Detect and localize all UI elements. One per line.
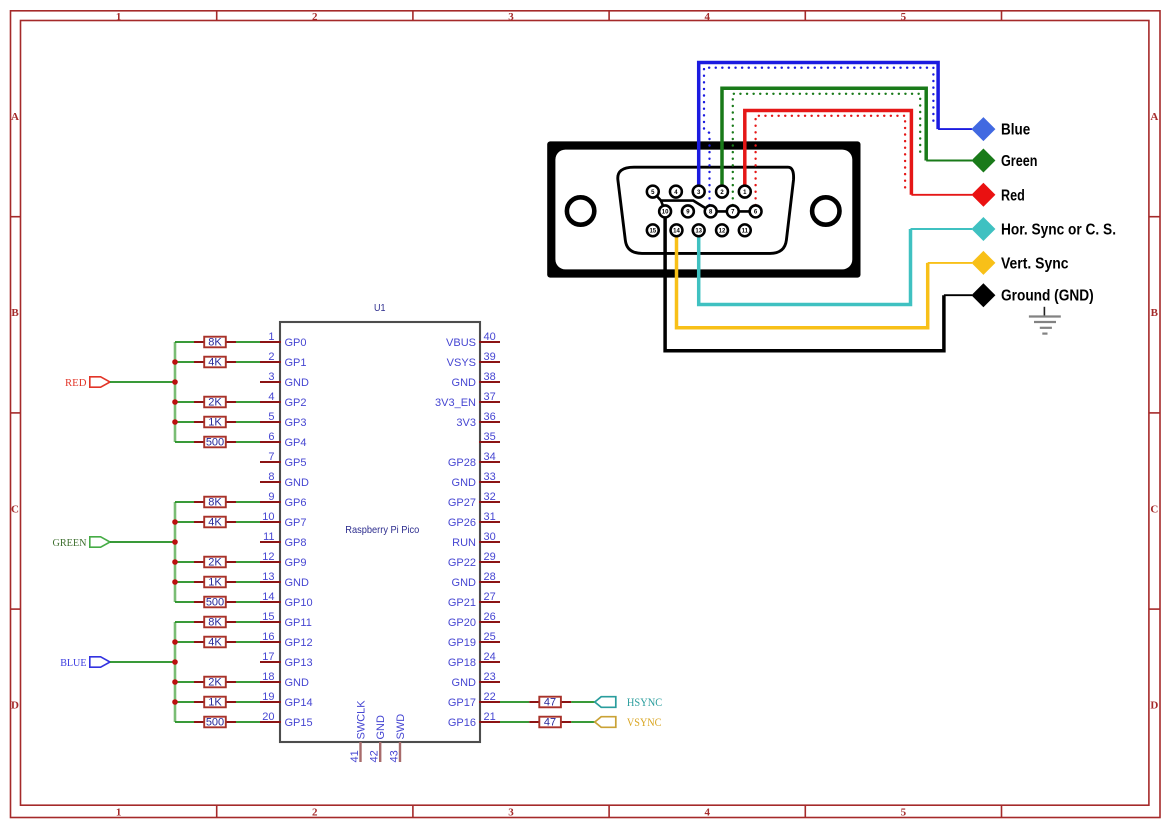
svg-text:26: 26 [484, 611, 496, 623]
svg-text:GP14: GP14 [285, 697, 313, 709]
svg-text:Vert. Sync: Vert. Sync [1001, 255, 1069, 272]
svg-text:D: D [11, 700, 19, 712]
svg-text:GP11: GP11 [285, 617, 312, 629]
svg-text:13: 13 [695, 229, 702, 235]
svg-text:1: 1 [116, 806, 122, 818]
svg-text:500: 500 [206, 597, 224, 609]
svg-text:4K: 4K [208, 517, 222, 529]
svg-text:2K: 2K [208, 677, 222, 689]
svg-text:1K: 1K [208, 697, 222, 709]
svg-text:17: 17 [262, 651, 274, 663]
svg-text:GP16: GP16 [448, 717, 476, 729]
svg-text:15: 15 [262, 611, 274, 623]
svg-text:RED: RED [65, 377, 87, 389]
svg-text:Raspberry Pi Pico: Raspberry Pi Pico [345, 524, 419, 536]
svg-text:B: B [11, 307, 19, 319]
svg-text:23: 23 [484, 671, 496, 683]
svg-text:10: 10 [662, 210, 669, 216]
svg-text:GP22: GP22 [448, 557, 476, 569]
svg-text:GP2: GP2 [285, 397, 307, 409]
svg-text:GP9: GP9 [285, 557, 307, 569]
svg-text:GND: GND [285, 377, 310, 389]
svg-text:25: 25 [484, 631, 496, 643]
svg-text:18: 18 [262, 671, 274, 683]
svg-text:GP13: GP13 [285, 657, 313, 669]
svg-text:47: 47 [544, 717, 556, 729]
svg-text:GP21: GP21 [448, 597, 476, 609]
svg-text:28: 28 [484, 571, 496, 583]
svg-text:C: C [11, 503, 19, 515]
svg-text:GP15: GP15 [285, 717, 313, 729]
svg-text:21: 21 [484, 711, 496, 723]
svg-text:5: 5 [901, 11, 907, 23]
svg-text:13: 13 [262, 571, 274, 583]
svg-text:6: 6 [268, 431, 274, 443]
svg-text:500: 500 [206, 717, 224, 729]
svg-text:VBUS: VBUS [446, 337, 476, 349]
svg-text:42: 42 [369, 750, 381, 762]
svg-text:GND: GND [452, 377, 477, 389]
svg-text:8K: 8K [208, 617, 222, 629]
svg-text:20: 20 [262, 711, 274, 723]
svg-text:Ground (GND): Ground (GND) [1001, 288, 1094, 305]
svg-text:41: 41 [349, 750, 361, 762]
svg-text:B: B [1151, 307, 1159, 319]
svg-text:11: 11 [742, 229, 749, 235]
svg-text:1: 1 [116, 11, 122, 23]
svg-text:3V3: 3V3 [456, 417, 476, 429]
svg-text:1K: 1K [208, 417, 222, 429]
svg-text:2: 2 [312, 806, 318, 818]
svg-text:RUN: RUN [452, 537, 476, 549]
svg-text:GP12: GP12 [285, 637, 313, 649]
svg-text:GND: GND [285, 677, 310, 689]
svg-text:GP17: GP17 [448, 697, 476, 709]
svg-text:36: 36 [484, 411, 496, 423]
svg-text:7: 7 [268, 451, 274, 463]
svg-text:GP6: GP6 [285, 497, 307, 509]
svg-text:12: 12 [719, 229, 726, 235]
svg-text:3V3_EN: 3V3_EN [435, 397, 476, 409]
svg-text:3: 3 [268, 371, 274, 383]
svg-text:BLUE: BLUE [60, 657, 87, 669]
svg-text:GP10: GP10 [285, 597, 313, 609]
svg-text:GP8: GP8 [285, 537, 307, 549]
svg-text:GP26: GP26 [448, 517, 476, 529]
svg-text:GP4: GP4 [285, 437, 307, 449]
svg-text:GND: GND [285, 477, 310, 489]
svg-text:Green: Green [1001, 153, 1037, 170]
svg-text:A: A [1150, 111, 1158, 123]
svg-text:34: 34 [484, 451, 496, 463]
svg-text:8K: 8K [208, 497, 222, 509]
svg-text:Red: Red [1001, 187, 1025, 204]
svg-text:15: 15 [649, 229, 656, 235]
svg-text:4: 4 [704, 806, 710, 818]
svg-text:GND: GND [452, 677, 477, 689]
svg-text:8K: 8K [208, 337, 222, 349]
svg-text:GP5: GP5 [285, 457, 307, 469]
svg-text:5: 5 [901, 806, 907, 818]
svg-text:2: 2 [312, 11, 318, 23]
svg-text:2K: 2K [208, 557, 222, 569]
svg-text:3: 3 [508, 11, 514, 23]
svg-text:24: 24 [484, 651, 496, 663]
svg-text:GP27: GP27 [448, 497, 476, 509]
svg-text:8: 8 [268, 471, 274, 483]
svg-text:GND: GND [452, 477, 477, 489]
svg-text:GND: GND [452, 577, 477, 589]
svg-text:12: 12 [262, 551, 274, 563]
svg-text:39: 39 [484, 351, 496, 363]
svg-text:1: 1 [268, 331, 274, 343]
svg-text:22: 22 [484, 691, 496, 703]
svg-text:GP28: GP28 [448, 457, 476, 469]
svg-text:VSYNC: VSYNC [627, 717, 662, 729]
svg-text:GP19: GP19 [448, 637, 476, 649]
svg-text:GP1: GP1 [285, 357, 307, 369]
svg-text:Blue: Blue [1001, 122, 1031, 139]
svg-text:9: 9 [268, 491, 274, 503]
svg-text:19: 19 [262, 691, 274, 703]
svg-text:35: 35 [484, 431, 496, 443]
svg-text:30: 30 [484, 531, 496, 543]
svg-text:4: 4 [268, 391, 274, 403]
svg-text:4: 4 [704, 11, 710, 23]
svg-text:47: 47 [544, 697, 556, 709]
svg-text:31: 31 [484, 511, 496, 523]
svg-text:40: 40 [484, 331, 496, 343]
svg-text:1K: 1K [208, 577, 222, 589]
svg-text:29: 29 [484, 551, 496, 563]
svg-text:32: 32 [484, 491, 496, 503]
svg-text:D: D [1150, 700, 1158, 712]
svg-text:43: 43 [388, 750, 400, 762]
svg-text:27: 27 [484, 591, 496, 603]
svg-text:38: 38 [484, 371, 496, 383]
svg-text:16: 16 [262, 631, 274, 643]
svg-text:U1: U1 [374, 302, 386, 314]
svg-text:2K: 2K [208, 397, 222, 409]
svg-text:500: 500 [206, 437, 224, 449]
svg-text:VSYS: VSYS [447, 357, 476, 369]
svg-text:2: 2 [268, 351, 274, 363]
svg-text:14: 14 [262, 591, 274, 603]
svg-text:C: C [1150, 503, 1158, 515]
svg-text:GND: GND [285, 577, 310, 589]
svg-text:SWCLK: SWCLK [355, 700, 367, 740]
svg-text:GP7: GP7 [285, 517, 307, 529]
svg-text:GP18: GP18 [448, 657, 476, 669]
svg-text:GP20: GP20 [448, 617, 476, 629]
svg-text:GP0: GP0 [285, 337, 307, 349]
svg-text:GREEN: GREEN [53, 537, 87, 549]
svg-text:4K: 4K [208, 357, 222, 369]
svg-text:GP3: GP3 [285, 417, 307, 429]
svg-text:11: 11 [263, 531, 274, 543]
svg-text:SWD: SWD [395, 714, 407, 740]
svg-text:GND: GND [375, 715, 387, 740]
svg-text:3: 3 [508, 806, 514, 818]
svg-text:14: 14 [673, 229, 680, 235]
svg-text:10: 10 [262, 511, 274, 523]
svg-text:5: 5 [268, 411, 274, 423]
svg-text:37: 37 [484, 391, 496, 403]
svg-text:4K: 4K [208, 637, 222, 649]
svg-text:Hor. Sync or C. S.: Hor. Sync or C. S. [1001, 222, 1116, 239]
svg-text:33: 33 [484, 471, 496, 483]
svg-text:A: A [11, 111, 19, 123]
svg-text:HSYNC: HSYNC [627, 697, 663, 709]
